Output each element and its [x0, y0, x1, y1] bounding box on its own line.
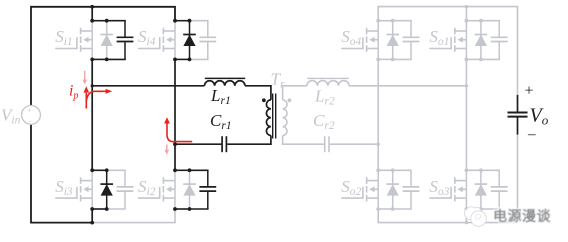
body diode of S_o2: [386, 170, 399, 209]
cell bracket wires of S_o3: [466, 170, 500, 209]
body diode of S_o1: [475, 21, 488, 60]
wire: leg B to C_r1: [175, 143, 221, 145]
transformer secondary polarity dot: [288, 98, 292, 102]
junction dots of S_o4: [376, 19, 394, 62]
snubber capacitor of S_o1: [491, 21, 508, 60]
transformer core: [273, 94, 276, 139]
wire: C_r1 to transformer primary bottom: [227, 136, 271, 145]
cell bracket wires of S_i4: [175, 21, 209, 60]
snubber capacitor of S_i4: [199, 21, 216, 60]
body diode of S_i4: [183, 21, 196, 60]
watermark text 电源漫谈: [493, 208, 551, 224]
snubber capacitor of S_o2: [403, 170, 420, 209]
snubber capacitor of S_i2: [199, 170, 216, 209]
transistor S_o4 (MOSFET symbol, gray): [341, 21, 378, 60]
transistor S_i4 (MOSFET symbol, gray): [138, 21, 175, 60]
wire: leg B vertical (S_i4 source to S_i2 drain): [174, 59, 176, 170]
node: top rail / S_i1 drain junction: [90, 5, 94, 9]
transistor S_i1 (MOSFET symbol, gray): [55, 21, 92, 60]
capacitor C_r2: [325, 136, 329, 152]
current arrow: red i_p arrow (up from S_i3, then right): [84, 86, 113, 108]
svg-text:–: –: [27, 115, 33, 125]
transistor S_i2 (MOSFET symbol, gray): [138, 170, 175, 209]
current arrow: pink arrow down into S_i1 leg: [82, 71, 87, 85]
node: C_r2 wire junction at S_o4 leg: [377, 143, 380, 146]
svg-text:+: +: [28, 105, 32, 114]
junction dots of S_i1: [90, 19, 108, 62]
cell bracket wires of S_o2: [378, 170, 412, 209]
junction dots of S_i3: [90, 168, 108, 211]
node: leg A tap to resonant tank: [91, 84, 94, 87]
wire: input bottom rail (black part): [31, 222, 92, 224]
wire: V_in positive lead: [30, 6, 32, 106]
wire: output bottom rail: [378, 135, 517, 223]
wire: transformer secondary top to L_r2: [283, 86, 307, 100]
wire: L_r2 to S_o1 leg midpoint (crosses S_o4 leg): [349, 85, 467, 87]
cell bracket wires of S_i2: [175, 170, 209, 209]
node: L_r2 wire junction at S_o1 leg: [465, 84, 468, 87]
node: leg B tap to C_r1 return wire: [173, 142, 177, 146]
svg-text:电源漫谈: 电源漫谈: [493, 208, 551, 224]
transistor S_o3 (MOSFET symbol, gray): [429, 170, 466, 209]
snubber capacitor of S_i1: [117, 21, 134, 60]
transformer T_r secondary winding: [283, 100, 287, 136]
inductor L_r1: [205, 78, 246, 85]
wire: S_i3 source leg: [91, 209, 93, 223]
wire: transformer secondary bottom to C_r2: [283, 136, 324, 145]
transistor S_o1 (MOSFET symbol, gray): [429, 21, 466, 60]
wire: S_o3 source leg: [465, 209, 467, 223]
capacitor Co / output capacitor: [508, 95, 528, 135]
body diode of S_i3: [100, 170, 113, 209]
junction dots of S_i2: [173, 168, 191, 211]
wire: output top rail: [378, 7, 517, 95]
snubber capacitor of S_i3: [117, 170, 134, 209]
node: bottom rail / S_o3 source junction: [465, 221, 468, 224]
wire: right leg B vertical (S_o1 source to S_o3 drain): [465, 59, 467, 170]
junction dots of S_o3: [465, 168, 483, 211]
junction dots of S_o1: [465, 19, 483, 62]
wire: leg A midpoint vertical (S_i1 source to S_i3 drain): [91, 59, 93, 170]
wire: L_r1 to transformer primary top: [245, 86, 271, 100]
inductor L_r2: [307, 78, 349, 85]
capacitor C_r1: [222, 136, 226, 152]
svg-text:–: –: [527, 127, 536, 143]
wire: S_i1 drain leg: [91, 7, 93, 21]
wire: S_o1 drain leg: [465, 7, 467, 21]
junction dots of S_o2: [376, 168, 394, 211]
current arrow: pink arrow down below C_r1 junction: [165, 145, 170, 155]
body diode of S_i2: [183, 170, 196, 209]
voltage source V_in (circle symbol): [22, 106, 41, 125]
current arrow: red arrow up leg B from C_r1 wire: [164, 117, 192, 141]
wire: C_r2 to S_o4 leg midpoint: [330, 143, 378, 145]
svg-text:+: +: [525, 83, 534, 100]
cell bracket wires of S_o1: [466, 21, 500, 60]
transformer T_r primary winding: [266, 100, 270, 136]
wire: leg A midpoint to L_r1: [92, 85, 204, 87]
wire: input top rail: [31, 7, 175, 21]
wire: V_in negative lead: [30, 124, 32, 223]
cell bracket wires of S_o4: [378, 21, 412, 60]
cell bracket wires of S_i1: [92, 21, 126, 60]
body diode of S_o3: [475, 170, 488, 209]
wire: input bottom rail (gray part): [92, 209, 175, 223]
watermark logo icon: [464, 207, 486, 227]
body diode of S_i1: [100, 21, 113, 60]
transformer primary polarity dot: [262, 98, 266, 102]
cell bracket wires of S_i3: [92, 170, 126, 209]
transistor S_o2 (MOSFET symbol, gray): [341, 170, 378, 209]
node: top rail / S_o1 drain junction: [465, 5, 468, 8]
wire: right leg A vertical (S_o4 source to S_o2 drain): [377, 59, 379, 170]
snubber capacitor of S_o3: [491, 170, 508, 209]
transistor S_i3 (MOSFET symbol, gray): [55, 170, 92, 209]
snubber capacitor of S_o4: [403, 21, 420, 60]
body diode of S_o4: [386, 21, 399, 60]
junction dots of S_i4: [173, 19, 191, 62]
node: bottom rail / S_i3 source junction: [90, 221, 94, 225]
